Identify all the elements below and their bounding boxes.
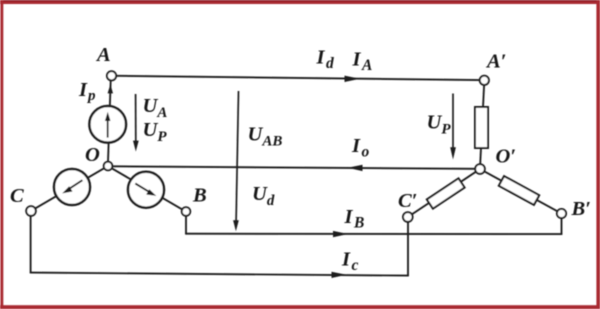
wire O' to node B' through resistor RB <box>484 171 557 211</box>
wire node O to node B through source GB <box>112 168 182 209</box>
wire IB line B to B' <box>186 233 562 235</box>
current arrow Ip (up) on A feeder <box>108 84 113 93</box>
svg-text:O: O <box>85 144 100 166</box>
node B terminal <box>182 207 191 216</box>
current arrow Id/IA on top wire <box>345 76 361 82</box>
wire A to A' (top line) <box>116 76 480 80</box>
red scan border: top bar <box>0 0 600 4</box>
red scan border: left line <box>0 0 3 309</box>
svg-text:B′: B′ <box>571 198 591 220</box>
current arrow IC (right) <box>332 272 347 278</box>
wire A' down through resistor RA to node O' <box>480 85 484 164</box>
wire node O to node C through source GC <box>35 168 104 209</box>
wire B' down <box>561 218 563 234</box>
node B' terminal <box>557 209 566 218</box>
wire O' to node C' through resistor RC <box>412 172 476 215</box>
node O' terminal <box>475 164 485 174</box>
source GA (phase A generator circle with up arrow) <box>89 106 126 143</box>
voltage arrow UP right (down) <box>450 94 456 160</box>
svg-text:O′: O′ <box>496 146 517 168</box>
wire C' down <box>407 222 409 276</box>
node C terminal <box>26 206 36 216</box>
svg-text:C′: C′ <box>398 190 417 212</box>
resistor RB (diagonal, O' to B') <box>499 176 539 205</box>
wire IC bottom line <box>31 273 408 276</box>
source GC (phase C generator circle with arrow) <box>54 169 90 205</box>
wire node A down through source GA to node O <box>108 80 111 161</box>
wire O to O' (neutral line) <box>112 166 475 169</box>
resistor RC (diagonal, O' to C') <box>427 178 465 208</box>
svg-text:A: A <box>95 44 111 66</box>
current arrow IB (right) <box>333 231 348 237</box>
svg-text:A′: A′ <box>485 51 506 73</box>
node C' terminal <box>403 212 413 222</box>
source GB (phase B generator circle with arrow) <box>128 172 164 208</box>
red scan border: bottom bar <box>0 305 600 309</box>
voltage arrow UA/UP (down) <box>133 94 139 152</box>
voltage arrow UAB/Ud (down) <box>233 91 239 231</box>
red scan border: right line <box>596 0 600 309</box>
wire node B down <box>185 216 187 234</box>
svg-text:C: C <box>10 185 24 207</box>
node O terminal <box>104 162 113 171</box>
node A' terminal <box>480 76 489 85</box>
wire node C down <box>30 216 32 273</box>
node A terminal <box>107 71 116 80</box>
svg-text:B: B <box>192 185 207 207</box>
resistor RA (vertical, A' to O') <box>475 107 488 148</box>
current arrow Io (left) on neutral wire <box>348 165 363 171</box>
